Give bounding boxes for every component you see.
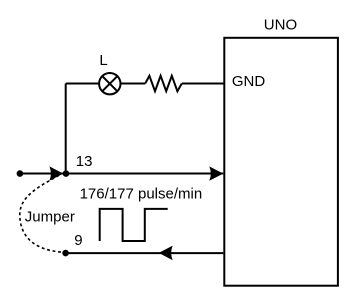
svg-text:9: 9 [74,232,82,249]
pulse waveform [100,209,168,241]
lamp L [99,73,120,94]
svg-text:UNO: UNO [264,16,297,33]
wire [19,173,66,175]
jumper dashed arc [20,175,64,252]
arrow into node 13 [49,166,63,180]
resistor R1 [145,76,182,91]
node dot left [17,170,24,177]
wire [182,83,225,85]
wire [66,83,100,85]
wire [66,173,223,175]
junction dot 13 [63,170,70,177]
svg-text:GND: GND [232,73,266,90]
arrow out of pin 9 [159,246,173,261]
svg-text:L: L [99,52,107,69]
svg-text:176/177 pulse/min: 176/177 pulse/min [80,185,203,202]
wire [66,252,224,254]
UNO board U1 [224,38,338,286]
svg-text:Jumper: Jumper [25,208,75,225]
arrow into pin 13 [209,166,223,180]
wire [65,84,67,174]
svg-text:13: 13 [76,153,93,170]
wire [121,83,146,85]
node dot 9 [62,250,69,257]
